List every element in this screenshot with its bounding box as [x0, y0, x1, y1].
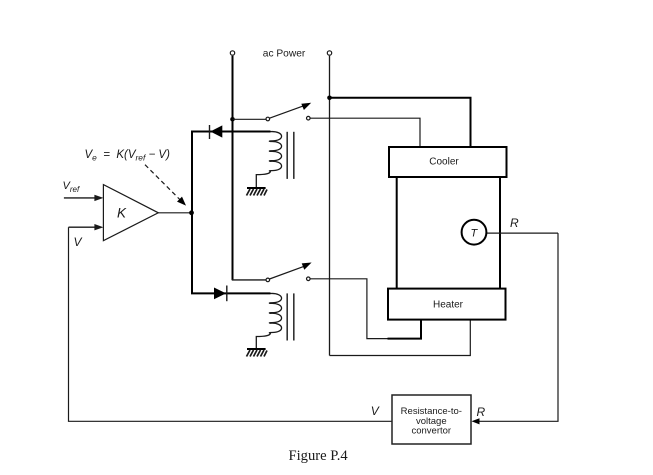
svg-text:V: V — [74, 235, 83, 249]
svg-text:Cooler: Cooler — [429, 157, 459, 168]
svg-text:Figure P.4: Figure P.4 — [289, 448, 349, 464]
svg-text:V: V — [371, 404, 380, 418]
svg-text:R: R — [477, 405, 486, 419]
svg-text:convertor: convertor — [411, 426, 451, 437]
svg-text:Vref: Vref — [63, 180, 80, 194]
svg-text:Heater: Heater — [433, 300, 464, 311]
svg-text:K: K — [117, 205, 127, 220]
svg-text:R: R — [510, 216, 519, 230]
svg-text:Ve = K(Vref − V): Ve = K(Vref − V) — [85, 149, 171, 163]
svg-text:ac Power: ac Power — [263, 48, 306, 59]
